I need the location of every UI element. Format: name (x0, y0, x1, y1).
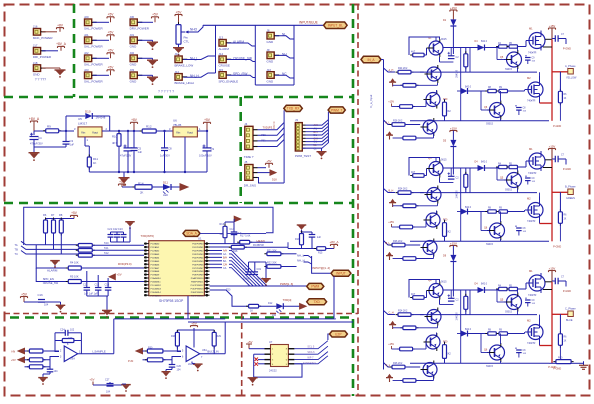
ground emitter (390, 78, 394, 81)
svg-text:1N4148: 1N4148 (96, 116, 106, 120)
ic U7 24C02 (271, 345, 289, 367)
resistor R23 1K (246, 305, 261, 307)
power +15V right (549, 27, 556, 29)
earth ground (583, 361, 585, 365)
svg-text:E2/SDA/SCL: E2/SDA/SCL (303, 362, 317, 365)
svg-text:P-GND: P-GND (548, 366, 556, 369)
wires interconnect left column (435, 158, 437, 162)
svg-text:B42.0: B42.0 (465, 207, 472, 209)
svg-text:+5V: +5V (108, 13, 115, 17)
wire collector loop (409, 37, 440, 55)
svg-text:104: 104 (54, 370, 59, 373)
svg-text:GND: GND (267, 40, 275, 44)
svg-text:+5V: +5V (71, 211, 78, 215)
svg-text:TB: TB (15, 247, 19, 251)
pullup resistor R29 vertical (213, 330, 215, 332)
svg-text:DRI_POWER: DRI_POWER (33, 55, 52, 59)
svg-text:J23: J23 (84, 68, 89, 72)
resistor R19 vertical (301, 231, 303, 247)
svg-text:NHO: NHO (190, 28, 198, 32)
no-connect X pin3 (255, 358, 259, 362)
wire (184, 56, 216, 60)
svg-text:102: 102 (70, 329, 75, 332)
svg-text:TC: TC (15, 252, 19, 256)
transistor Q high driver B (507, 173, 522, 188)
svg-text:+5V: +5V (191, 321, 196, 325)
svg-text:U5: U5 (78, 117, 82, 121)
svg-text:S9015: S9015 (505, 189, 513, 192)
svg-text:In_a_Input: In_a_Input (369, 95, 373, 108)
svg-text:A_H: A_H (389, 69, 394, 72)
svg-text:DRV_POWER: DRV_POWER (130, 27, 150, 31)
svg-text:+5V: +5V (266, 159, 271, 163)
wire (93, 39, 109, 41)
port above mcu (183, 230, 200, 236)
svg-text:R9: R9 (47, 125, 51, 129)
capacitor c q low (515, 348, 517, 350)
feedback capacitor C24 (64, 330, 66, 336)
svg-text:J16: J16 (33, 25, 38, 29)
svg-text:+5V: +5V (108, 66, 115, 70)
svg-text:24C02: 24C02 (269, 369, 277, 373)
svg-text:SH79F98 1SOP: SH79F98 1SOP (159, 299, 184, 303)
wire pin1 row (210, 243, 240, 245)
svg-text:R24 2K2: R24 2K2 (398, 188, 408, 191)
left edge vertical wire (460, 290, 462, 363)
mosfet M1 high 740#7R (529, 33, 545, 49)
wire emitter down (439, 57, 441, 62)
wire input rows with stubs (21, 241, 78, 245)
capacitor C8 1uF/50V (164, 131, 166, 148)
connector J23 SAL_POWER (85, 72, 92, 79)
power +8V_A (58, 45, 65, 47)
capacitor C12 (97, 275, 99, 288)
wires q low (481, 352, 489, 354)
connector J16 MCK_POWER (33, 29, 40, 36)
svg-text:J3: J3 (295, 118, 298, 122)
ground (147, 60, 158, 61)
wire cap bus to ground (87, 295, 108, 297)
svg-text:+15V: +15V (549, 144, 556, 148)
wire output +5V (197, 130, 207, 132)
svg-text:YELLOW: YELLOW (566, 77, 577, 80)
svg-text:R8: R8 (59, 213, 63, 217)
red dashed divider horizontal y=313 (mcu section bottom) (4, 313, 358, 315)
wire (228, 60, 256, 62)
svg-text:INPUT: INPUT (336, 272, 346, 276)
capacitor C3 1uF (65, 131, 67, 141)
svg-text:+15V: +15V (450, 6, 457, 10)
ground (123, 172, 125, 177)
svg-text:+15V: +15V (450, 241, 457, 245)
red bus vertical (551, 39, 553, 121)
svg-text:J10: J10 (267, 68, 272, 72)
svg-text:R10: R10 (112, 135, 118, 139)
svg-text:+5V: +5V (204, 118, 211, 122)
wire vertical right (287, 242, 289, 248)
transistor Q6 9013 (427, 188, 441, 202)
wire mosfet low drain (539, 76, 541, 80)
wire from left top (443, 167, 470, 169)
svg-text:J13: J13 (219, 36, 224, 40)
mcu pins left (144, 243, 149, 245)
wire input (34, 130, 66, 132)
svg-text:PWM_T: PWM_T (331, 108, 343, 112)
svg-text:R19: R19 (295, 238, 300, 241)
wire gate mosfet low (524, 210, 526, 212)
capacitor C5 1uF (133, 131, 135, 148)
svg-text:J18: J18 (33, 61, 38, 65)
svg-text:P16/AN6: P16/AN6 (151, 263, 161, 266)
svg-text:U5A: U5A (70, 357, 75, 360)
transistor Q low driver B (490, 223, 505, 238)
green dashed divider horizontal y=97 (4, 96, 353, 99)
wire gate mosfet high (525, 283, 527, 289)
svg-text:TA: TA (15, 243, 18, 247)
feedback resistor R24 (60, 340, 77, 342)
red wire to port (552, 313, 568, 315)
capacitor C18 (248, 262, 250, 272)
svg-text:2K2: 2K2 (447, 110, 452, 113)
svg-text:B42.0: B42.0 (465, 329, 472, 331)
power +5V opamp (191, 325, 198, 327)
wire output (102, 130, 142, 132)
junction dots (65, 130, 67, 132)
input C_H stub (384, 311, 396, 315)
wire gate mosfet low (524, 332, 526, 334)
svg-text:1N4148: 1N4148 (457, 312, 459, 321)
svg-text:SAL_POWER: SAL_POWER (84, 45, 104, 49)
wire emitter down (439, 300, 441, 305)
port INPUT 1-4 (331, 270, 351, 276)
svg-text:740#7R: 740#7R (528, 294, 537, 297)
transistor Q7 9015 low (426, 213, 440, 227)
svg-text:1K: 1K (564, 341, 567, 343)
svg-text:TIME ?: TIME ? (244, 155, 254, 159)
ground (147, 77, 158, 78)
svg-text:P02/PWM2: P02/PWM2 (192, 251, 204, 253)
svg-text:P1F/AN15: P1F/AN15 (151, 294, 162, 297)
transistor Q2 9013 (427, 67, 441, 81)
capacitor c q high (525, 55, 527, 57)
power +5V bottom left (21, 296, 28, 298)
svg-text:740#7R: 740#7R (528, 172, 537, 175)
svg-text:M1: M1 (529, 27, 533, 31)
svg-text:RC38PC8: RC38PC8 (253, 244, 264, 247)
svg-text:GND: GND (130, 80, 138, 84)
svg-text:A_Phase: A_Phase (565, 64, 576, 68)
wires to mcu (92, 244, 144, 246)
svg-text:100nF: 100nF (243, 278, 250, 281)
wire bus mid vertical (254, 25, 256, 85)
wire top bus to port (203, 24, 324, 26)
wire to port (328, 334, 330, 340)
wire reset top (225, 221, 234, 223)
mosfet M9 low (528, 325, 543, 340)
op-amp U5B (186, 346, 200, 362)
wire mid bus (420, 71, 537, 73)
svg-text:TXD: TXD (313, 300, 320, 304)
power +5V (107, 52, 114, 54)
svg-text:R4 10K: R4 10K (70, 261, 79, 265)
svg-text:J21: J21 (84, 33, 89, 37)
wire bus vertical left (283, 110, 285, 183)
green dashed divider vertical x=74 (top-left section) (73, 4, 76, 97)
wire (42, 50, 58, 52)
wire top (242, 318, 336, 320)
ground (33, 140, 35, 153)
svg-text:2K2: 2K2 (447, 231, 452, 234)
svg-text:TA2: TA2 (104, 251, 109, 255)
svg-text:R5 10K: R5 10K (70, 275, 79, 279)
red wire to port (552, 71, 568, 73)
wire bottom bus (410, 120, 549, 122)
wires J4 to bus (258, 123, 285, 130)
svg-text:M2: M2 (527, 319, 531, 323)
green dashed divider vertical x=353 (352, 4, 355, 396)
svg-text:+5V: +5V (119, 180, 126, 184)
svg-text:+8V_A: +8V_A (329, 240, 338, 244)
svg-text:TA0: TA0 (104, 241, 109, 245)
svg-text:740#7R: 740#7R (527, 220, 536, 223)
svg-text:J9: J9 (267, 48, 270, 52)
svg-text:C3: C3 (70, 139, 74, 143)
input resistor R25 (25, 350, 30, 352)
svg-text:P03/PWM3: P03/PWM3 (192, 254, 204, 256)
svg-text:C14: C14 (230, 228, 235, 231)
capacitor C27 (109, 382, 111, 384)
connector J22 SAL_POWER (85, 55, 92, 62)
power +5V LED row (119, 183, 126, 185)
svg-text:56K: 56K (220, 233, 225, 236)
svg-text:P06/PWM6: P06/PWM6 (192, 264, 204, 266)
svg-text:740#7R: 740#7R (527, 100, 536, 103)
wire (156, 130, 173, 132)
capacitor c q high (525, 298, 527, 300)
wire (228, 43, 256, 46)
svg-text:P00/PWM0: P00/PWM0 (192, 244, 204, 246)
capacitor C right (551, 28, 553, 39)
svg-text:9015: 9015 (441, 38, 447, 41)
svg-text:GND: GND (33, 72, 41, 76)
wires q high (497, 179, 506, 181)
svg-text:C9: C9 (211, 147, 215, 151)
wire mosfet low source (539, 99, 541, 103)
svg-text:LM317: LM317 (78, 122, 88, 126)
svg-text:+5V: +5V (247, 340, 252, 344)
diode D10 1N4148 (65, 116, 67, 131)
wire from left top (443, 47, 470, 49)
svg-text:PWM_TEST: PWM_TEST (295, 154, 311, 158)
connector J32 (130, 55, 137, 62)
power +5V (107, 34, 114, 36)
svg-text:1K: 1K (250, 310, 253, 313)
resistor base low (397, 348, 415, 350)
ground arrow caps (265, 262, 267, 278)
svg-text:C27: C27 (105, 379, 110, 382)
wire mosfet low drain (539, 197, 541, 201)
svg-text:C12: C12 (95, 284, 100, 287)
wire (259, 305, 277, 307)
connector J3 PWM_TEST 8-pin (295, 123, 302, 151)
svg-text:J11: J11 (175, 52, 180, 56)
red dashed divider vertical x=241.7 (bottom sections) (241, 314, 243, 397)
svg-text:1K: 1K (564, 219, 567, 221)
svg-text:P-GND: P-GND (553, 125, 561, 128)
ground (55, 69, 66, 70)
svg-text:1uF: 1uF (70, 143, 75, 147)
svg-text:+15V: +15V (388, 221, 394, 224)
connector J15 SPD_ENABLE (219, 72, 226, 79)
ground (49, 372, 51, 374)
input C_L stub (384, 363, 392, 368)
input A_L stub (384, 120, 392, 125)
resistor vertical right of cap (465, 48, 467, 54)
wires q high (497, 301, 506, 303)
svg-text:B42.0: B42.0 (465, 87, 472, 89)
svg-text:104: 104 (44, 304, 49, 307)
ground (102, 310, 112, 311)
wire bottom bus (410, 240, 549, 242)
power +5V for potentiometer (175, 14, 182, 16)
svg-text:740#7R: 740#7R (527, 342, 536, 345)
connector J12 BRAKE_HIGH (175, 74, 182, 81)
ic pins right (288, 348, 294, 350)
svg-text:R24 2K2: R24 2K2 (398, 310, 408, 313)
no-connect X pin4 (255, 362, 259, 366)
ground emitter (390, 199, 394, 202)
svg-text:C8: C8 (168, 147, 172, 151)
svg-text:E2P: E2P (335, 332, 341, 336)
transistor Q3 9015 low (426, 93, 440, 107)
svg-text:LED: LED (163, 193, 168, 197)
svg-text:R6: R6 (43, 213, 47, 217)
svg-text:U7: U7 (269, 340, 273, 344)
connector J21 SAL_POWER (85, 37, 92, 44)
adj resistor R11 1K (84, 137, 86, 146)
svg-text:NH_L: NH_L (297, 254, 305, 258)
mosfet M5 low (528, 203, 543, 218)
svg-text:ALARM: ALARM (47, 269, 58, 273)
svg-text:4K7: 4K7 (112, 141, 117, 145)
resistor emitter (400, 84, 418, 86)
svg-text:P-GND: P-GND (563, 47, 571, 50)
svg-text:1N4148: 1N4148 (457, 190, 459, 199)
svg-text:? ? ???: ? ? ??? (35, 77, 46, 81)
svg-text:C24: C24 (60, 329, 65, 332)
wire mid bus (420, 314, 537, 316)
svg-text:J5: J5 (244, 160, 247, 164)
wire down to opamp section (187, 296, 189, 319)
svg-text:M1: M1 (529, 269, 533, 273)
svg-text:J8: J8 (267, 29, 270, 33)
svg-text:R26 2K2: R26 2K2 (393, 362, 403, 365)
svg-text:P14/AN4: P14/AN4 (151, 256, 161, 259)
svg-text:R30: R30 (148, 347, 153, 350)
svg-text:R16: R16 (220, 223, 225, 226)
svg-text:R22 20K: R22 20K (267, 261, 277, 264)
wire (93, 57, 109, 59)
svg-text:2K2: 2K2 (447, 353, 452, 356)
transistor Q8 9013 low (423, 241, 437, 255)
svg-text:R40: R40 (558, 357, 563, 360)
svg-text:TXD(INT0): TXD(INT0) (141, 234, 155, 238)
svg-text:B42.0: B42.0 (481, 284, 488, 286)
svg-text:J14: J14 (219, 52, 224, 56)
svg-text:J33: J33 (130, 68, 135, 72)
svg-text:P-GND: P-GND (553, 246, 561, 249)
input resistor R27 (27, 366, 46, 368)
power +8V_A right (326, 248, 334, 250)
wire (184, 73, 216, 77)
capacitor c q high (525, 176, 527, 178)
arrow port (180, 184, 188, 191)
svg-text:P-GND: P-GND (563, 290, 571, 293)
svg-text:M2: M2 (527, 197, 531, 201)
wire left bus (254, 353, 265, 355)
ground arrow J3 (302, 147, 321, 149)
svg-text:GREEN: GREEN (566, 197, 575, 200)
svg-text:C_H: C_H (389, 312, 394, 315)
power +15V phase B top (450, 130, 457, 132)
svg-text:+5V: +5V (11, 358, 16, 362)
capacitor C phase C (450, 290, 452, 298)
feedback loop wires (55, 333, 59, 352)
svg-text:P1D/AN13: P1D/AN13 (151, 287, 162, 290)
svg-text:P12/AN2: P12/AN2 (151, 250, 161, 253)
svg-text:BRAKE_HIGH: BRAKE_HIGH (175, 81, 194, 85)
wire to +5V (258, 167, 267, 169)
wire drain up (545, 159, 552, 161)
power +8V_A input (31, 120, 38, 122)
svg-text:J12: J12 (175, 70, 180, 74)
svg-text:P04/PWM4: P04/PWM4 (192, 257, 204, 259)
svg-text:Vout: Vout (187, 131, 193, 135)
wire bottom loop (254, 364, 302, 377)
transistor Q12 9013 low (423, 363, 437, 377)
resistor R1 (76, 244, 95, 246)
svg-text:104: 104 (106, 391, 111, 394)
svg-text:S9015: S9015 (486, 365, 494, 368)
wire bundle diagonals to PWM bus (229, 250, 267, 286)
svg-text:S9015: S9015 (486, 123, 494, 126)
ground stub alarm (54, 265, 56, 268)
input port arrow 2 (18, 357, 25, 363)
ground emitter low (387, 374, 391, 377)
svg-text:CRUISE_SW: CRUISE_SW (43, 281, 59, 285)
svg-text:+5V: +5V (117, 273, 122, 277)
port E2PROM (330, 331, 348, 337)
svg-text:M2: M2 (527, 76, 531, 80)
svg-text:+15V: +15V (388, 343, 394, 346)
svg-text:CTL: CTL (184, 40, 190, 44)
connector J30 (130, 19, 137, 26)
input port arrow 3 (136, 348, 143, 354)
phase C bottom: resistor to earth (549, 362, 556, 364)
wire row3 to bus (258, 178, 285, 184)
resistor R2 (76, 249, 95, 251)
svg-text:R7: R7 (51, 213, 55, 217)
svg-text:P15/AN5: P15/AN5 (151, 260, 161, 263)
wire (571, 362, 583, 364)
svg-text:P05/PWM5: P05/PWM5 (192, 261, 204, 263)
power +5V (152, 16, 159, 18)
ic pins left (265, 348, 271, 350)
wire (304, 256, 312, 259)
svg-text:P18/AN8: P18/AN8 (151, 270, 161, 273)
power +8V (57, 27, 64, 29)
svg-text:WP 7: WP 7 (307, 356, 314, 359)
